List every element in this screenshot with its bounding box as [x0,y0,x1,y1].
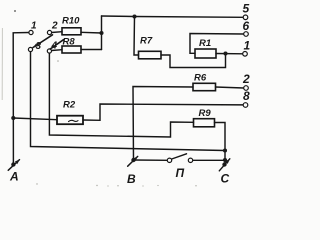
ink speck [14,10,16,12]
wire R7 right loop down to R1 node [161,54,226,68]
wire R2 left [13,118,57,120]
wire R10/R8 common vertical [101,16,103,50]
svg-text:R10: R10 [62,16,80,27]
switch lever pole 1 [33,35,53,48]
wire contact 4 down and to R9 left [49,53,193,137]
svg-text:6: 6 [243,19,250,33]
terminal 1 circle [243,52,248,57]
wire bottom bus switch P to C [193,159,225,161]
wire contact 1 to terminal A [13,33,29,165]
switch P right contact circle [188,158,192,162]
wire contact 2 to R10 [52,31,63,34]
wire B vertical to R6 [133,87,193,161]
svg-text:R6: R6 [194,73,207,84]
svg-text:5: 5 [243,2,250,16]
terminal 2 circle [244,86,249,91]
contact 4 circle [47,49,51,53]
terminal 5 circle [243,15,248,20]
terminal 6 circle [244,32,249,37]
resistor R8 [62,46,81,53]
svg-text:П: П [176,166,185,180]
contact 2 circle [47,30,51,34]
svg-text:3: 3 [36,41,42,52]
wire R8 right to junction [81,49,102,51]
terminal A arrow [8,160,19,171]
resistor R6 [193,83,216,90]
wire R9 right down to C [215,123,226,165]
contact 3 circle [28,47,32,51]
terminal C dot [222,162,226,166]
svg-text:8: 8 [243,89,250,103]
junction dot top bus / B vertical [132,14,136,18]
resistor R1 [195,49,216,58]
svg-text:4: 4 [51,41,58,52]
contact 1 circle [29,30,33,34]
switch P lever [172,154,187,159]
junction dot C / contact3 bus [223,148,227,152]
svg-text:1: 1 [244,39,251,53]
svg-text:R1: R1 [199,38,211,49]
resistor R10 [62,28,81,35]
wire R2 right to terminal 8 [83,104,243,120]
switch P left contact circle [167,158,171,162]
wire upper vertical to R7 left [134,17,139,56]
terminal B dot [131,158,135,162]
switch lever pole 1 arrowhead [33,44,38,48]
svg-text:1: 1 [31,21,37,32]
wire R6 right to terminal 2 [216,87,244,88]
svg-text:В: В [127,172,136,186]
svg-text:А: А [9,170,19,184]
wire bottom bus B to switch P [134,159,168,161]
scan streak [1,28,3,100]
switch lever pole 2 arrowhead [50,45,55,49]
resistor R2 [57,116,83,125]
svg-text:R2: R2 [63,100,76,111]
wire R10 right to junction [81,31,102,34]
svg-text:2: 2 [51,21,58,32]
svg-text:R8: R8 [63,37,76,48]
scan dots bottom [36,60,196,186]
wire R1 left loop up to terminal 6 [190,34,244,54]
junction dot A vertical / R2 [11,116,15,120]
resistor R2 value tilde [69,120,79,121]
junction dot R10 output [99,31,103,35]
terminal B arrow [128,156,138,166]
junction dot R1 output [223,51,227,55]
switch lever pole 2 [50,40,63,49]
resistor R9 [194,119,215,127]
wire R1 bottom to terminal 1 [216,53,243,55]
svg-text:R7: R7 [140,36,153,47]
junction dot C / bottom bus [223,158,227,162]
terminal C arrow [219,159,230,171]
terminal A dot [11,162,15,166]
svg-text:С: С [221,172,230,186]
wire contact 4 to R8 [52,49,63,52]
wire contact 3 down and across to C [31,52,226,151]
terminal 8 circle [243,103,248,108]
svg-text:2: 2 [242,72,250,86]
wire top bus to terminal 5 [102,16,244,17]
svg-text:R9: R9 [199,108,212,119]
resistor R7 [139,51,162,59]
